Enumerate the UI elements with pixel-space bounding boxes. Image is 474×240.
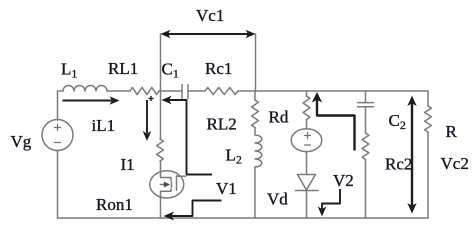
svg-text:V1: V1 bbox=[216, 179, 237, 198]
svg-text:I1: I1 bbox=[121, 155, 135, 174]
svg-text:Rd: Rd bbox=[269, 108, 289, 127]
svg-text:Ron1: Ron1 bbox=[96, 195, 133, 214]
svg-text:RL2: RL2 bbox=[207, 115, 237, 134]
svg-text:Vg: Vg bbox=[11, 132, 32, 151]
svg-text:Vc2: Vc2 bbox=[441, 154, 469, 173]
svg-text:Rc1: Rc1 bbox=[205, 59, 232, 78]
svg-text:Vd: Vd bbox=[267, 190, 288, 209]
svg-text:Vc1: Vc1 bbox=[196, 6, 224, 25]
svg-text:V2: V2 bbox=[333, 171, 354, 190]
svg-text:Rc2: Rc2 bbox=[385, 155, 412, 174]
svg-text:R: R bbox=[446, 122, 458, 141]
svg-text:iL1: iL1 bbox=[92, 116, 116, 135]
svg-text:RL1: RL1 bbox=[108, 59, 138, 78]
